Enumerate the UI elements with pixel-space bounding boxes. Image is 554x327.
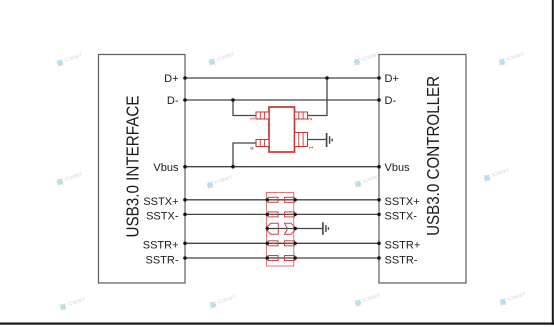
svg-text:D+: D+ xyxy=(385,73,399,85)
svg-text:SSTR-: SSTR- xyxy=(146,254,179,266)
svg-text:USB3.0 CONTROLLER: USB3.0 CONTROLLER xyxy=(423,76,443,236)
svg-text:ICWMT: ICWMT xyxy=(506,52,526,63)
svg-text:ICWMT: ICWMT xyxy=(362,293,382,304)
svg-text:D-: D- xyxy=(385,95,397,107)
svg-text:4: 4 xyxy=(250,147,256,150)
svg-text:1: 1 xyxy=(309,146,315,149)
svg-text:ICWMT: ICWMT xyxy=(67,297,87,308)
svg-text:SSTR+: SSTR+ xyxy=(143,240,179,252)
svg-text:ICWMT: ICWMT xyxy=(64,53,84,64)
svg-text:SSTX+: SSTX+ xyxy=(385,196,420,208)
svg-text:2: 2 xyxy=(308,117,314,120)
svg-text:D+: D+ xyxy=(164,73,178,85)
svg-text:SSTX-: SSTX- xyxy=(385,210,418,222)
svg-text:ICWMT: ICWMT xyxy=(216,52,236,63)
svg-text:SSTX-: SSTX- xyxy=(146,210,179,222)
svg-text:ICWMT: ICWMT xyxy=(491,168,511,179)
svg-text:SSTR+: SSTR+ xyxy=(385,240,421,252)
svg-text:ICWMT: ICWMT xyxy=(64,172,84,183)
svg-text:SSTX+: SSTX+ xyxy=(143,196,178,208)
svg-text:USB3.0 INTERFACE: USB3.0 INTERFACE xyxy=(123,96,143,238)
svg-text:D-: D- xyxy=(167,95,179,107)
svg-text:3: 3 xyxy=(251,117,257,120)
svg-text:Vbus: Vbus xyxy=(153,162,179,174)
svg-text:SSTR-: SSTR- xyxy=(385,254,418,266)
svg-text:Vbus: Vbus xyxy=(385,162,411,174)
svg-text:ICWMT: ICWMT xyxy=(214,175,234,186)
svg-text:ICWMT: ICWMT xyxy=(361,52,381,63)
svg-text:ICWMT: ICWMT xyxy=(507,292,527,303)
svg-text:ICWMT: ICWMT xyxy=(217,295,237,306)
